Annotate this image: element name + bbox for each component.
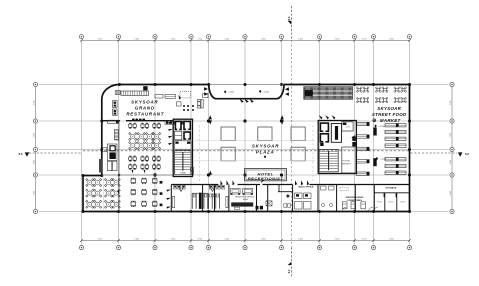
svg-text:TOILET: TOILET [388, 201, 393, 203]
svg-text:S-8: S-8 [465, 153, 470, 156]
main entrance doors [240, 99, 244, 103]
svg-text:____: ____ [182, 91, 187, 92]
svg-text:5 400: 5 400 [389, 239, 394, 241]
corridor doors dark [256, 206, 259, 210]
svg-text:+ 0.00: + 0.00 [378, 126, 385, 128]
svg-text:5 400: 5 400 [225, 38, 230, 40]
stair core right [319, 149, 338, 171]
service line column B [118, 121, 120, 175]
street food tables [358, 88, 361, 91]
stair core left [175, 150, 192, 174]
restaurant-core doors [168, 122, 173, 124]
kitchen dashed prep table [180, 91, 191, 98]
section line S-9 vertical through plan [290, 40, 292, 247]
market level mark 2 [376, 157, 378, 160]
core left lobby [175, 141, 192, 149]
svg-text:S-8: S-8 [19, 153, 24, 156]
reception desk [245, 169, 287, 181]
svg-text:_______: _______ [382, 152, 389, 153]
restaurant tables row1 squares [129, 124, 132, 127]
toilet partitions [170, 185, 172, 212]
kitchen equipment right [198, 100, 201, 109]
planter hatched [114, 130, 118, 141]
level mark +0.00 right [259, 90, 261, 93]
plaza paving dashes [199, 125, 201, 181]
section marker S-8 right [411, 152, 458, 154]
svg-text:S-9: S-9 [288, 269, 291, 273]
elevators core right [320, 122, 330, 132]
svg-text:4 200: 4 200 [34, 133, 36, 138]
washroom door funnels [178, 185, 185, 192]
storage doors [384, 193, 385, 197]
core right block [318, 121, 356, 174]
plaza-toilet doors [221, 180, 223, 185]
svg-text:5 400: 5 400 [34, 101, 36, 106]
svg-text:HOUSE: HOUSE [343, 161, 351, 163]
right dimension line [451, 85, 453, 212]
dimension ticks and texts [80, 39, 83, 42]
entrance side doors right [285, 87, 289, 91]
grid bubbles bottom [79, 246, 83, 250]
core right door [351, 135, 355, 139]
svg-text:2 700: 2 700 [362, 38, 367, 40]
lavatory counters [172, 196, 175, 208]
svg-text:BACK OFFICE: BACK OFFICE [299, 185, 314, 188]
waiter counter island [107, 144, 117, 161]
kitchen counters [115, 91, 120, 95]
svg-text:+ 0.00: + 0.00 [262, 91, 269, 93]
plaza floor lines [194, 140, 315, 142]
restaurant round tables rows 2-3 [131, 134, 135, 138]
elevators core left [175, 121, 182, 131]
svg-text:5 400: 5 400 [34, 191, 36, 196]
svg-text:4 200: 4 200 [450, 133, 452, 138]
svg-text:MARKET: MARKET [380, 118, 401, 123]
security room [342, 122, 353, 131]
service shaft [331, 124, 341, 143]
svg-text:GRAND: GRAND [135, 105, 155, 110]
tall cabinets [107, 161, 111, 171]
svg-text:CCTV: CCTV [345, 127, 350, 129]
kitchen door [179, 95, 181, 100]
svg-text:+ 0.00: + 0.00 [227, 92, 234, 94]
section marker S-8 left [29, 152, 82, 154]
svg-text:SKYSOAR: SKYSOAR [131, 100, 158, 105]
toilet fixtures top row [174, 185, 177, 189]
service line lower + door [118, 175, 120, 212]
buffet counter west [108, 120, 119, 123]
svg-text:RECEPTIONIST: RECEPTIONIST [248, 176, 284, 181]
service stations right [160, 181, 163, 184]
core left block [173, 119, 192, 176]
servery dark items on kitchen wall [132, 119, 135, 121]
restaurant front divider [102, 174, 173, 176]
left dimension line [35, 85, 37, 212]
svg-text:2 700: 2 700 [362, 239, 367, 241]
svg-text:_ _ _: _ _ _ [276, 205, 281, 206]
street food long counter [304, 87, 353, 99]
wall grid dots [118, 83, 121, 86]
toilet block top wall [171, 184, 218, 186]
restaurant tables mid rows [129, 157, 132, 160]
svg-text:5 400: 5 400 [135, 239, 140, 241]
svg-text:TOILET: TOILET [400, 201, 405, 203]
medical room right [278, 185, 280, 192]
svg-text:3 800: 3 800 [450, 160, 452, 165]
toilet stalls center [191, 193, 193, 209]
market shelves right band [385, 124, 406, 127]
svg-text:5 400: 5 400 [335, 239, 340, 241]
small counter by wall [103, 147, 107, 151]
reception door [261, 180, 264, 184]
level mark street food [374, 124, 376, 127]
section marker S-9 bottom [290, 248, 292, 277]
service shaft dark [199, 193, 202, 209]
svg-text:5 400: 5 400 [171, 239, 176, 241]
svg-text:2 700: 2 700 [198, 239, 203, 241]
restaurant tables lower-left grid [88, 180, 92, 184]
stalls right group [208, 193, 210, 209]
building outer wall [83, 85, 410, 212]
svg-text:SKYSOAR: SKYSOAR [377, 106, 401, 111]
svg-text:5 400: 5 400 [298, 38, 303, 40]
top dimension line [82, 39, 410, 41]
svg-text:2 700: 2 700 [198, 38, 203, 40]
canopy line over recess [209, 84, 284, 86]
svg-text:5 400: 5 400 [225, 239, 230, 241]
boxes below core left [190, 168, 193, 171]
svg-text:5 400: 5 400 [450, 191, 452, 196]
stove burners [183, 105, 185, 107]
grid bubbles top [79, 35, 83, 39]
svg-text:5 400: 5 400 [335, 38, 340, 40]
servery counter [165, 121, 184, 124]
svg-text:PLAZA: PLAZA [256, 150, 275, 155]
svg-text:5 400: 5 400 [98, 239, 103, 241]
svg-text:5 400: 5 400 [298, 239, 303, 241]
svg-text:5 400: 5 400 [261, 239, 266, 241]
svg-text:5 400: 5 400 [98, 38, 103, 40]
section marker S-9 top [290, 6, 292, 40]
svg-text:RESTAURANT: RESTAURANT [126, 111, 164, 116]
svg-text:STAIR: STAIR [180, 172, 186, 175]
corridor doors column E [209, 115, 213, 119]
svg-text:5 400: 5 400 [450, 101, 452, 106]
row grid lines [39, 84, 449, 86]
svg-text:TOILET: TOILET [377, 201, 382, 203]
grid bubbles left [33, 82, 37, 86]
level mark +0.00 left [224, 90, 226, 93]
svg-text:KEEPING: KEEPING [342, 163, 351, 165]
svg-text:5 400: 5 400 [389, 38, 394, 40]
south wall door arcs [342, 207, 347, 212]
restaurant comb tables lower-right [131, 179, 136, 183]
wall strip hatched [99, 159, 102, 173]
svg-text:STREET FOOD: STREET FOOD [372, 112, 407, 117]
waiter station boxes [113, 101, 118, 108]
street food doors from core [319, 115, 323, 119]
corridor doors column G [280, 115, 284, 119]
column grid lines [81, 40, 83, 244]
svg-text:5 400: 5 400 [135, 38, 140, 40]
svg-text:SKYSOAR: SKYSOAR [252, 143, 279, 148]
entrance side doors left [204, 87, 208, 91]
svg-text:5 400: 5 400 [261, 38, 266, 40]
svg-text:5 400: 5 400 [171, 38, 176, 40]
kitchen south wall [103, 120, 121, 122]
market shelves left band [356, 122, 369, 125]
svg-text:+ 0.00: + 0.00 [380, 159, 387, 161]
section line across plan [83, 150, 410, 152]
svg-text:S-9: S-9 [288, 16, 291, 20]
market dark units column J [373, 128, 376, 136]
service counter dark [231, 202, 253, 206]
toilet small rooms mid [321, 186, 327, 190]
svg-text:STORAGE: STORAGE [386, 187, 397, 190]
grid bubbles right [450, 82, 454, 86]
svg-text:3 800: 3 800 [34, 160, 36, 165]
plaza columns [221, 127, 235, 141]
bottom dimension line [82, 240, 410, 242]
svg-text:DRIVERS/GUIDES: DRIVERS/GUIDES [346, 197, 364, 199]
housekeeping room [342, 147, 356, 173]
